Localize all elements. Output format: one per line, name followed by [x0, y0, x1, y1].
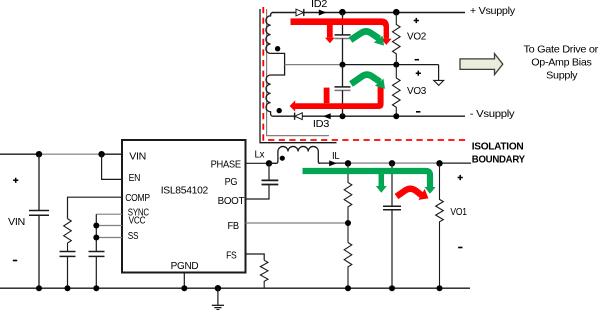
svg-text:FS: FS	[226, 251, 237, 262]
node: COUT bottom	[389, 285, 395, 291]
svg-text:VO1: VO1	[450, 207, 467, 218]
wire: output rail	[318, 162, 349, 164]
node: divider bottom	[345, 285, 351, 291]
wire: center tap to VO3 top	[340, 64, 439, 66]
resistor VO2	[393, 13, 401, 65]
red current arrow (VO1 ripple)	[397, 189, 422, 197]
node: C3 bottom junction	[340, 113, 346, 119]
wire W2 bottom to center-tap bus	[271, 53, 285, 75]
label + (VO1)	[458, 175, 463, 180]
node: COUT top	[389, 160, 395, 166]
capacitor C3	[335, 86, 351, 88]
transformer T1 core inner line	[267, 9, 329, 136]
node: SS junction	[93, 235, 99, 241]
resistor VO1	[436, 163, 444, 288]
wire: FS	[246, 254, 265, 260]
wire: EN	[102, 154, 122, 179]
svg-text:VO2: VO2	[407, 31, 427, 42]
node: VO3 bottom junction	[393, 113, 399, 119]
node: CVCC bottom	[93, 285, 99, 291]
svg-text:ISL854102: ISL854102	[161, 184, 209, 196]
svg-text:PG: PG	[225, 177, 238, 188]
svg-text:PHASE: PHASE	[211, 159, 242, 170]
diode D2	[296, 9, 304, 16]
node: VO2 top junction	[393, 9, 400, 16]
green current path (VO1 loop)	[303, 171, 431, 188]
wire: COMP	[68, 197, 123, 218]
wire: VCC	[96, 225, 122, 227]
wire: bypass vertical	[95, 214, 97, 251]
IC U1 ISL854102 box	[122, 140, 246, 273]
svg-text:SS: SS	[128, 231, 139, 242]
node: CCOMP bottom	[65, 285, 71, 291]
svg-text:ID2: ID2	[311, 0, 328, 10]
wire: SS	[96, 237, 122, 239]
capacitor CVCC	[89, 251, 105, 253]
green current arrow (VO3 loop)	[351, 75, 380, 84]
node: PHASE junction	[266, 160, 272, 166]
svg-text:VIN: VIN	[129, 151, 146, 162]
isolation boundary red dashed line	[263, 7, 467, 140]
node: VIN cap top	[36, 151, 42, 157]
wire: PHASE	[246, 162, 270, 164]
svg-text:Op-Amp Bias: Op-Amp Bias	[531, 57, 591, 69]
resistor R2 (divider bottom)	[344, 243, 352, 289]
red current path VO3 loop	[295, 86, 384, 109]
green current arrow (VO2 loop)	[351, 31, 380, 40]
capacitor C2	[335, 34, 351, 36]
node: D2 cathode junction	[339, 9, 346, 16]
wire: ground rail	[0, 287, 470, 289]
node: C2 bottom junction	[340, 62, 346, 68]
current arrow IL	[329, 160, 337, 166]
label - (VIN)	[13, 260, 17, 262]
secondary winding W3 (bottom)	[266, 75, 273, 116]
input capacitor CIN	[38, 154, 40, 210]
wire: VIN rail	[0, 153, 39, 155]
node: FB junction	[345, 220, 351, 226]
svg-text:BOUNDARY: BOUNDARY	[472, 155, 526, 166]
label - (VO3)	[416, 111, 420, 113]
svg-text:COMP: COMP	[125, 193, 150, 204]
label + (VO2)	[414, 18, 419, 23]
node: VCC junction	[93, 223, 99, 229]
capacitor CBOOT	[268, 163, 270, 180]
svg-text:To Gate Drive or: To Gate Drive or	[524, 44, 599, 56]
ground (mid, aux)	[438, 65, 440, 81]
capacitor C3 top wire	[342, 65, 344, 87]
label + (VIN)	[13, 178, 18, 183]
current arrow ID2	[319, 10, 327, 16]
winding W2 polarity dot	[275, 46, 280, 51]
svg-text:Lx: Lx	[255, 150, 265, 161]
node: VO1 top	[436, 160, 442, 166]
wire: top secondary output	[272, 12, 465, 14]
transformer T1 core outer line	[260, 9, 337, 143]
wire: center tap (gray segment)	[285, 64, 340, 66]
node: VO2 bottom junction	[393, 62, 399, 68]
svg-text:+ Vsupply: + Vsupply	[470, 5, 516, 17]
svg-text:FB: FB	[228, 221, 240, 232]
secondary winding W2 (top)	[266, 13, 273, 54]
node: EN tap	[98, 151, 104, 157]
label - (VO1)	[458, 247, 462, 249]
svg-text:Supply: Supply	[546, 70, 578, 82]
node: VO1 bottom	[437, 285, 443, 291]
block arrow: to gate drive	[460, 54, 503, 75]
svg-text:PGND: PGND	[171, 260, 199, 272]
red current path VO2 loop	[291, 18, 390, 38]
wire: FB	[246, 222, 349, 224]
inductor polarity dot	[280, 156, 285, 161]
diode D3	[295, 113, 303, 120]
svg-text:- Vsupply: - Vsupply	[470, 108, 516, 120]
svg-text:ISOLATION: ISOLATION	[472, 142, 524, 153]
inductor Lx	[269, 146, 320, 163]
current arrow ID3	[323, 113, 331, 119]
capacitor C2 bottom wire	[342, 39, 344, 65]
capacitor C2 top wire	[342, 13, 344, 35]
resistor R1 (divider top)	[344, 163, 352, 242]
resistor VO3	[393, 65, 401, 117]
winding W3 polarity dot	[277, 108, 282, 113]
svg-text:IL: IL	[332, 151, 340, 162]
node: divider top	[345, 160, 351, 166]
svg-text:VCC: VCC	[129, 216, 146, 227]
wire: SYNC	[96, 213, 122, 215]
wire: PGND	[183, 273, 185, 289]
label + (VO3)	[416, 71, 421, 76]
capacitor C3 bottom wire	[342, 90, 344, 116]
svg-text:BOOT: BOOT	[218, 196, 245, 207]
svg-text:ID3: ID3	[313, 119, 330, 130]
svg-text:VIN: VIN	[8, 216, 25, 228]
resistor RCOMP	[64, 219, 72, 252]
node: earth ground junction	[215, 285, 221, 291]
svg-text:VO3: VO3	[407, 86, 427, 97]
wire: BOOT	[246, 185, 270, 200]
wire: bottom secondary output	[273, 115, 465, 117]
earth ground symbol	[217, 288, 219, 305]
capacitor COUT	[391, 163, 393, 206]
node: PGND junction	[181, 285, 187, 291]
resistor RFS	[260, 260, 268, 288]
node: CIN bottom	[36, 285, 42, 291]
capacitor CCOMP	[60, 251, 76, 253]
svg-text:EN: EN	[129, 173, 141, 184]
label - (VO2)	[415, 59, 419, 61]
